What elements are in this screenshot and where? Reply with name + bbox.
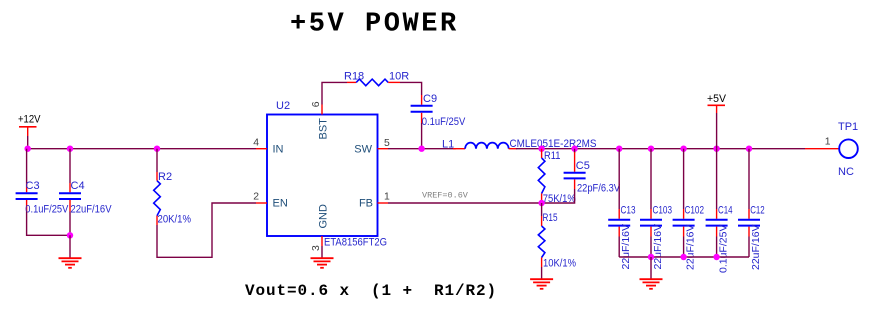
node at C5 (571, 146, 577, 152)
svg-text:+5V: +5V (707, 93, 727, 105)
wire L1 to output rail (516, 148, 805, 150)
capacitor C4 (59, 180, 112, 215)
svg-text:C5: C5 (576, 160, 590, 172)
op-amp U2 ETA8156FT2G (267, 100, 387, 249)
svg-text:EN: EN (273, 198, 288, 210)
pin 2 stub (EN) (256, 202, 267, 204)
capacitor C13 (608, 149, 635, 270)
svg-text:0.1uF/25V: 0.1uF/25V (718, 225, 730, 273)
svg-text:BST: BST (318, 118, 330, 140)
node at FB/R11/R15 (538, 200, 544, 206)
svg-text:GND: GND (318, 204, 330, 229)
capacitor C3 (16, 180, 69, 215)
svg-text:+12V: +12V (18, 114, 41, 126)
svg-text:C102: C102 (685, 205, 705, 217)
node at C14 bottom (713, 254, 719, 260)
wire C3 bottom lead (27, 212, 70, 236)
svg-text:20K/1%: 20K/1% (158, 214, 192, 226)
wire cap bank bottom rail (619, 256, 749, 258)
resistor R15 (538, 212, 576, 270)
wire FB (388, 202, 542, 204)
node at C4 (67, 146, 73, 152)
svg-text:C14: C14 (718, 205, 733, 217)
capacitor C9 (411, 93, 466, 128)
svg-text:R15: R15 (543, 212, 558, 224)
svg-text:ETA8156FT2G: ETA8156FT2G (324, 237, 387, 249)
svg-text:4: 4 (253, 138, 259, 149)
wire SW to L1 (388, 148, 456, 150)
svg-text:C12: C12 (750, 205, 765, 217)
node at R11 (538, 146, 544, 152)
node at C103 (648, 146, 654, 152)
svg-text:22uF/16V: 22uF/16V (750, 224, 762, 270)
svg-text:1: 1 (825, 137, 831, 148)
wire GND pin to ground (321, 246, 323, 258)
svg-text:C9: C9 (423, 93, 437, 105)
inductor L1 (442, 138, 597, 150)
svg-text:C13: C13 (621, 205, 636, 217)
svg-text:R18: R18 (344, 71, 364, 83)
wire BST riser (322, 82, 347, 104)
wire C4 top lead (69, 149, 71, 183)
wire bank to ground (650, 257, 652, 279)
wire +5V stem (716, 113, 718, 149)
svg-text:6: 6 (311, 101, 322, 107)
svg-text:R2: R2 (158, 171, 172, 183)
pin 3 stub (GND) (321, 236, 323, 246)
svg-text:5: 5 (384, 138, 390, 149)
svg-text:3: 3 (311, 245, 322, 251)
resistor R2 (154, 171, 191, 226)
svg-text:2: 2 (253, 192, 259, 203)
wire R2 top lead (156, 149, 158, 172)
node at C14/+5V (713, 146, 719, 152)
node at SW/C9 (418, 146, 424, 152)
svg-text:SW: SW (354, 143, 372, 155)
svg-text:+5V POWER: +5V POWER (290, 10, 459, 40)
wire to ground (69, 235, 71, 257)
svg-text:22uF/16V: 22uF/16V (620, 224, 632, 270)
wire input rail (28, 148, 256, 150)
svg-text:C103: C103 (653, 205, 673, 217)
capacitor C103 (640, 149, 672, 270)
test point TP1 (825, 121, 858, 178)
pin 6 stub (BST) (321, 105, 323, 115)
svg-text:FB: FB (359, 198, 373, 210)
node at C12 (746, 146, 752, 152)
wire C4 bottom lead (69, 212, 71, 236)
wire R15 to ground (541, 267, 543, 279)
svg-text:0.1uF/25V: 0.1uF/25V (422, 116, 466, 128)
wire +12V stem (27, 136, 29, 149)
power symbol +5V (707, 93, 727, 113)
wire C5 bottom to FB node (542, 189, 575, 203)
svg-text:10K/1%: 10K/1% (543, 258, 576, 270)
svg-text:C4: C4 (71, 180, 85, 192)
pin 1 stub (FB) (378, 202, 389, 204)
svg-text:R11: R11 (544, 150, 561, 162)
power symbol +12V (18, 114, 41, 137)
wire R2 bottom to EN (157, 203, 256, 257)
ground under cap bank (640, 279, 663, 289)
capacitor C102 (673, 149, 704, 270)
svg-text:C3: C3 (26, 180, 40, 192)
svg-text:VREF=0.6V: VREF=0.6V (422, 190, 469, 200)
svg-text:U2: U2 (276, 100, 290, 112)
svg-text:0.1uF/25V: 0.1uF/25V (25, 203, 69, 215)
node at C103 bottom (648, 254, 654, 260)
ground under C4 (59, 258, 82, 268)
pin 5 stub (SW) (378, 148, 389, 150)
svg-text:10R: 10R (389, 71, 409, 83)
pin 4 stub (IN) (256, 148, 267, 150)
svg-text:1: 1 (384, 192, 390, 203)
svg-text:22pF/6.3V: 22pF/6.3V (577, 182, 621, 194)
node at R2 (154, 146, 160, 152)
node at C102 bottom (680, 254, 686, 260)
svg-text:22uF/16V: 22uF/16V (685, 224, 697, 270)
node at C13 (616, 146, 622, 152)
svg-text:22uF/16V: 22uF/16V (652, 224, 664, 270)
ground under R15 (530, 279, 553, 289)
capacitor C14 (706, 149, 733, 273)
node at C3/C4 bottom (67, 232, 73, 238)
capacitor C12 (738, 149, 765, 270)
wire R18 to C9 (400, 82, 422, 95)
svg-text:Vout=0.6 x (1 + R1/R2): Vout=0.6 x (1 + R1/R2) (245, 282, 497, 300)
capacitor C5 (564, 149, 621, 195)
svg-text:IN: IN (273, 143, 284, 155)
svg-text:22uF/16V: 22uF/16V (71, 203, 113, 215)
node at +12V/C3 (25, 146, 31, 152)
wire C9 to SW node (421, 123, 423, 149)
svg-text:L1: L1 (442, 138, 454, 150)
wire R15 top lead (541, 203, 543, 216)
wire C3 top lead (26, 149, 28, 183)
wire to TP1 (805, 148, 839, 150)
resistor R18 (344, 71, 409, 86)
svg-text:TP1: TP1 (838, 121, 858, 133)
node at C102 (680, 146, 686, 152)
ground under U2 (311, 258, 334, 268)
resistor R11 (538, 149, 576, 205)
svg-text:NC: NC (838, 166, 854, 178)
